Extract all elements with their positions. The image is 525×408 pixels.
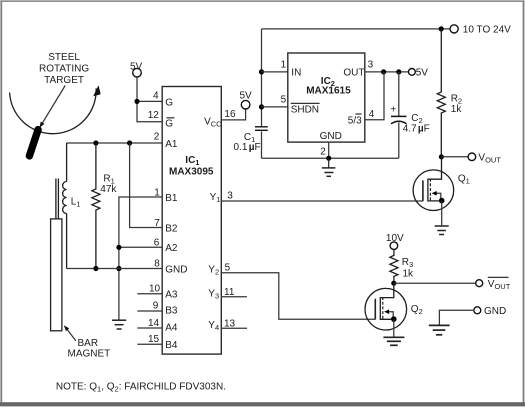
svg-text:4: 4	[369, 109, 375, 120]
wire 5V to pins G and G-bar	[137, 77, 162, 122]
svg-text:16: 16	[224, 109, 236, 120]
node V-bar-OUT terminal	[476, 277, 511, 290]
junction (VOUT tap)	[439, 154, 444, 159]
svg-text:14: 14	[148, 318, 160, 329]
junction (R2 branch)	[439, 26, 444, 31]
svg-text:15: 15	[148, 334, 160, 345]
IC2 pin SHDN label (with overline)	[291, 103, 320, 115]
wire to V-bar-OUT terminal	[394, 282, 476, 284]
IC1 MAX3095 body	[162, 87, 221, 355]
wire analog ground rail	[262, 157, 399, 159]
svg-text:2: 2	[154, 132, 160, 143]
svg-text:5: 5	[225, 262, 231, 273]
IC1 pin 5 Y2	[208, 262, 230, 276]
svg-text:3: 3	[368, 59, 374, 70]
label R3 1k	[402, 257, 414, 280]
svg-text:TARGET: TARGET	[44, 75, 84, 86]
label IC1 MAX3095	[169, 155, 214, 178]
node 10V terminal	[386, 233, 404, 250]
IC2 pin 5/3 label (overline on 3)	[348, 114, 362, 126]
capacitor C2 (polarized)	[390, 72, 406, 158]
svg-text:MAX3095: MAX3095	[169, 167, 214, 178]
IC1 pin 2 A1	[154, 132, 178, 150]
wire to VOUT terminal	[441, 156, 468, 158]
steel rotating target (arc with rotation arrowhead and tooth)	[10, 85, 101, 156]
svg-text:4.7µF: 4.7µF	[403, 124, 430, 135]
svg-text:A1: A1	[165, 139, 178, 150]
svg-text:MAX1615: MAX1615	[306, 85, 351, 96]
junction (IC2 GND)	[326, 156, 331, 161]
wire Y1 to Q1 gate	[221, 200, 423, 202]
svg-text:8: 8	[154, 259, 160, 270]
inductor L1	[56, 143, 67, 269]
svg-text:4: 4	[153, 91, 159, 102]
bar magnet	[51, 219, 62, 331]
junction (A2 tap)	[116, 245, 121, 250]
svg-text:12: 12	[148, 110, 160, 121]
svg-text:1: 1	[154, 187, 160, 198]
svg-text:GND: GND	[165, 264, 187, 275]
svg-text:IN: IN	[291, 67, 301, 78]
svg-text:47k: 47k	[100, 184, 117, 195]
svg-text:1k: 1k	[403, 268, 415, 279]
svg-text:2: 2	[320, 147, 326, 158]
IC1 pin 16 VCC	[204, 109, 236, 129]
svg-text:ROTATING: ROTATING	[39, 64, 89, 75]
svg-text:MAGNET: MAGNET	[68, 348, 111, 359]
wire VCC to 5V terminal	[221, 109, 245, 120]
junction (rail to B2 branch)	[127, 140, 132, 145]
wire GND terminal to ground	[439, 310, 473, 325]
svg-text:+: +	[390, 105, 396, 116]
svg-text:GND: GND	[484, 306, 506, 317]
junction (L1/R1 rail at R1)	[93, 140, 98, 145]
svg-text:5: 5	[281, 95, 287, 106]
junction (bottom rail tap)	[116, 266, 121, 271]
svg-text:NOTE: Q1, Q2: FAIRCHILD FDV303: NOTE: Q1, Q2: FAIRCHILD FDV303N.	[56, 382, 226, 394]
IC1 pin 8 GND	[154, 259, 187, 276]
wire to IC2 pin 1 IN	[262, 71, 288, 73]
IC1 pin 4 G	[153, 91, 173, 109]
junction (V-bar-OUT tap)	[391, 281, 396, 286]
IC1 pin 13 Y4 stub	[208, 319, 247, 332]
wire 5/3 pin to OUT rail	[365, 72, 384, 120]
node 5V terminal (IC1 G input)	[130, 61, 143, 77]
IC1 pin 12 G-bar	[148, 110, 175, 130]
IC1 pin 7 B2	[154, 218, 178, 234]
svg-text:B1: B1	[165, 193, 178, 204]
arrow from label to target	[40, 86, 66, 128]
wire node-A rail to A1	[67, 142, 163, 144]
wire supply riser to IN/SHDN/C1	[261, 29, 263, 126]
wire to IC2 pin 5 SHDN	[262, 106, 288, 108]
label C2 4.7uF	[403, 113, 430, 135]
ground (IC2)	[322, 158, 336, 176]
IC1 pin 14 A4 stub	[137, 318, 178, 333]
label C1 0.1uF	[234, 132, 261, 153]
svg-text:9: 9	[153, 301, 159, 312]
node GND terminal	[474, 306, 506, 317]
arrow from label to bar magnet	[64, 325, 76, 341]
junction (5V / pin4)	[134, 99, 139, 104]
svg-text:3: 3	[227, 191, 233, 202]
svg-text:A4: A4	[165, 322, 178, 333]
svg-text:B4: B4	[165, 340, 178, 351]
node 5V terminal (VCC)	[240, 91, 253, 109]
ground (Q2 source)	[383, 337, 404, 345]
IC1 pin 11 Y3 stub	[208, 287, 247, 300]
transistor Q1 (FDV303N n-channel MOSFET)	[413, 157, 454, 211]
junction (R1 bottom)	[93, 266, 98, 271]
wire IC2 GND pin 2	[328, 142, 330, 158]
wire B1 / A2 / ground branch	[119, 197, 162, 320]
ground (left rail)	[112, 320, 126, 329]
svg-text:G: G	[165, 97, 173, 108]
junction (IN tap)	[259, 69, 264, 74]
capacitor C1	[255, 127, 268, 158]
junction (5/3 riser)	[381, 69, 386, 74]
wire A1 to B2 branch	[130, 143, 163, 228]
svg-text:B2: B2	[165, 224, 178, 235]
resistor R2	[437, 29, 445, 157]
IC1 pin 3 Y1	[210, 191, 234, 205]
svg-text:5V: 5V	[240, 91, 253, 102]
junction (SHDN tap)	[259, 104, 264, 109]
wire Y2 to Q2 gate	[221, 273, 375, 320]
label R1 47k	[100, 173, 117, 195]
svg-text:GND: GND	[320, 131, 342, 142]
node VOUT terminal	[468, 152, 501, 164]
svg-text:SHDN: SHDN	[291, 104, 319, 115]
svg-text:A2: A2	[165, 243, 178, 254]
junction (C2 tap)	[396, 69, 401, 74]
transistor Q2 (FDV303N n-channel MOSFET)	[365, 283, 407, 330]
svg-text:10: 10	[149, 284, 161, 295]
wire Q2 source to ground	[393, 319, 395, 337]
svg-text:OUT: OUT	[343, 67, 364, 78]
svg-text:6: 6	[154, 238, 160, 249]
svg-text:STEEL: STEEL	[48, 52, 80, 63]
ground (Q1 source)	[435, 226, 449, 235]
IC1 pin 10 A3 stub	[137, 284, 178, 301]
label BAR MAGNET	[68, 338, 111, 360]
svg-text:11: 11	[224, 287, 235, 298]
svg-text:1: 1	[281, 60, 287, 71]
svg-text:A3: A3	[165, 290, 178, 301]
IC1 pin 1 B1	[154, 187, 178, 204]
svg-text:5V: 5V	[130, 61, 143, 72]
svg-text:10V: 10V	[386, 233, 404, 244]
svg-text:7: 7	[154, 218, 160, 229]
svg-text:13: 13	[224, 319, 236, 330]
svg-text:1k: 1k	[451, 104, 463, 115]
svg-text:G: G	[165, 119, 173, 130]
ground (GND terminal)	[429, 325, 450, 334]
node 5V output terminal	[409, 68, 429, 79]
wire top supply rail 10-24V	[262, 28, 450, 30]
wire OUT to 5V rail	[365, 71, 409, 73]
svg-text:10 TO 24V: 10 TO 24V	[463, 25, 511, 36]
wire Q1 source to ground	[441, 201, 443, 226]
svg-text:5V: 5V	[416, 68, 429, 79]
IC2 MAX1615 body	[288, 53, 365, 142]
svg-text:B3: B3	[165, 305, 178, 316]
IC1 pin 6 A2	[154, 238, 178, 255]
svg-text:0.1µF: 0.1µF	[234, 142, 261, 153]
label R2 1k	[451, 93, 463, 114]
wire bottom rail to GND pin 8	[67, 268, 163, 270]
label IC2 MAX1615	[306, 76, 351, 96]
node 10 TO 24V terminal	[450, 25, 511, 36]
svg-text:5/3: 5/3	[348, 115, 362, 126]
IC1 pin 9 B3 stub	[137, 301, 178, 317]
label STEEL ROTATING TARGET	[39, 52, 89, 86]
resistor R1	[92, 143, 100, 269]
svg-text:BAR: BAR	[78, 338, 99, 349]
IC1 pin 15 B4 stub	[137, 334, 178, 351]
resistor R3	[390, 250, 398, 284]
